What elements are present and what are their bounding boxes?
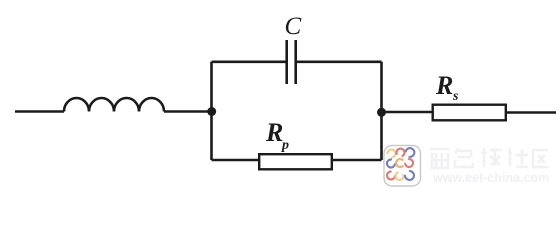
svg-text:www.eet-china.com: www.eet-china.com	[432, 171, 549, 185]
svg-text:R: R	[435, 71, 453, 100]
svg-text:p: p	[281, 138, 289, 153]
svg-text:s: s	[452, 89, 459, 104]
svg-text:R: R	[265, 118, 283, 147]
svg-text:C: C	[285, 13, 302, 40]
